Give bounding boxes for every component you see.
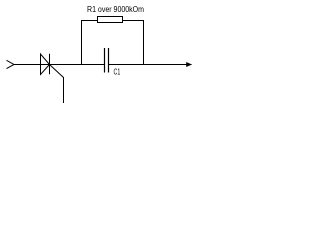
capacitor C1 right plate — [108, 48, 110, 73]
capacitor C1 left plate — [104, 48, 106, 73]
thyristor V1 cathode bar — [49, 54, 51, 75]
wire resistor branch right vertical — [143, 20, 145, 65]
wire resistor branch top horizontal — [81, 20, 144, 22]
right output arrow — [186, 62, 192, 67]
thyristor V1 triangle (anode) — [41, 54, 50, 75]
wire resistor branch left vertical — [81, 20, 83, 65]
resistor R1 body — [98, 17, 123, 23]
svg-text:R1 over 9000kOm: R1 over 9000kOm — [87, 4, 144, 14]
left input arrow — [7, 60, 15, 68]
thyristor V1 gate wire — [50, 65, 64, 104]
wire main horizontal net — [14, 64, 192, 66]
svg-text:C1: C1 — [114, 67, 121, 77]
